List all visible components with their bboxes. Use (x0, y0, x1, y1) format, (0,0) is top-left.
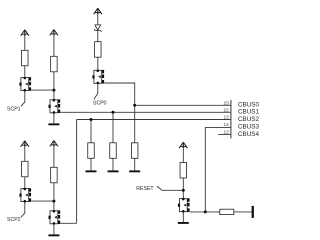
svg-text:CBUS3: CBUS3 (238, 123, 259, 130)
svg-text:SCP1: SCP1 (7, 107, 21, 113)
svg-text:13: 13 (223, 115, 229, 121)
svg-text:CBUS0: CBUS0 (238, 101, 259, 108)
svg-text:CBUS1: CBUS1 (238, 109, 259, 116)
svg-text:22: 22 (223, 107, 229, 113)
svg-text:RESET: RESET (136, 186, 154, 192)
svg-text:SCP2: SCP2 (7, 217, 21, 223)
svg-text:23: 23 (223, 100, 229, 106)
svg-text:CBUS2: CBUS2 (238, 116, 259, 123)
svg-text:12: 12 (223, 130, 229, 136)
svg-text:14: 14 (223, 122, 229, 128)
svg-text:SCP0: SCP0 (93, 101, 107, 107)
svg-text:CBUS4: CBUS4 (238, 131, 259, 138)
